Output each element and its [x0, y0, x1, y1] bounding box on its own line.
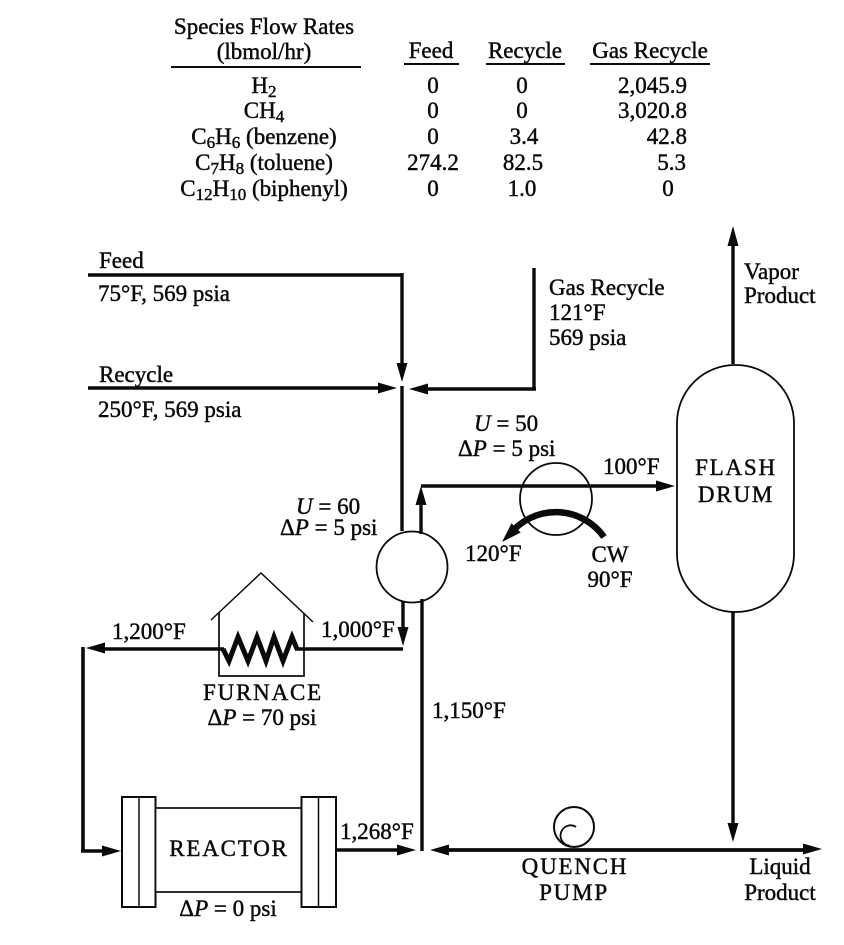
- furnace coil zigzag: [223, 637, 297, 661]
- svg-text:0: 0: [427, 176, 439, 201]
- svg-text:120°F: 120°F: [465, 541, 522, 566]
- arrow cooling water outlet: [502, 523, 521, 542]
- quench pump circle: [554, 807, 594, 847]
- table row CH4: [244, 98, 687, 126]
- svg-text:Liquid: Liquid: [749, 854, 811, 879]
- svg-text:1.0: 1.0: [508, 176, 537, 201]
- reactor left flange: [122, 797, 156, 907]
- furnace body: [219, 613, 304, 676]
- svg-text:Species Flow Rates: Species Flow Rates: [174, 14, 354, 39]
- table header Recycle underline: [486, 63, 565, 65]
- svg-text:Recycle: Recycle: [488, 38, 562, 63]
- table row toluene: [195, 150, 686, 178]
- svg-text:Vapor: Vapor: [744, 259, 799, 284]
- wire cold stream out of U60: [401, 601, 404, 628]
- wire reactor outlet: [336, 848, 397, 852]
- wire gas recycle horizontal: [428, 387, 536, 391]
- svg-text:Product: Product: [744, 283, 816, 308]
- table row benzene: [191, 124, 687, 152]
- quench pump volute: [561, 825, 577, 845]
- arrow liquid down to quench line: [728, 823, 739, 842]
- svg-text:0: 0: [662, 176, 674, 201]
- svg-text:42.8: 42.8: [647, 124, 687, 149]
- node mixer junction: [400, 386, 403, 531]
- arrow cold stream to furnace line: [398, 627, 409, 646]
- arrow liquid product: [803, 844, 822, 855]
- wire vapor product: [731, 245, 734, 364]
- svg-text:ΔP = 5 psi: ΔP = 5 psi: [458, 436, 555, 461]
- wire flash drum bottom: [731, 612, 734, 823]
- svg-text:(lbmol/hr): (lbmol/hr): [217, 39, 312, 64]
- svg-text:U = 50: U = 50: [474, 411, 538, 436]
- svg-text:75°F, 569 psia: 75°F, 569 psia: [98, 281, 230, 306]
- svg-text:DRUM: DRUM: [698, 482, 774, 507]
- wire furnace feed line right segment: [295, 647, 403, 651]
- svg-text:QUENCH: QUENCH: [522, 854, 629, 879]
- arrow gas recycle into mixer: [409, 384, 428, 395]
- arrow hot stream up to cooler line: [416, 486, 427, 505]
- svg-text:ΔP = 0 psi: ΔP = 0 psi: [179, 896, 276, 921]
- svg-text:Gas Recycle: Gas Recycle: [592, 38, 708, 63]
- svg-text:1,150°F: 1,150°F: [432, 698, 506, 723]
- arrow furnace outlet: [86, 643, 105, 654]
- wire hot stream above U60: [419, 505, 422, 534]
- svg-text:ΔP = 70 psi: ΔP = 70 psi: [208, 705, 317, 730]
- wire furnace outlet left segment: [104, 647, 224, 651]
- table row H2: [251, 73, 687, 101]
- wire recycle horizontal: [88, 386, 378, 390]
- svg-text:CW: CW: [591, 542, 628, 567]
- wire furnace to reactor left vertical: [81, 647, 85, 851]
- heat exchanger U50 circle: [520, 463, 592, 535]
- wire feed vertical drop: [400, 273, 403, 364]
- wire cooler line horizontal: [421, 484, 656, 487]
- svg-text:121°F: 121°F: [549, 300, 606, 325]
- arrow recycle into mixer: [378, 383, 397, 394]
- wire quench line horizontal: [449, 848, 804, 852]
- wire feed horizontal: [88, 273, 402, 277]
- svg-text:100°F: 100°F: [603, 454, 660, 479]
- svg-text:1,200°F: 1,200°F: [112, 619, 186, 644]
- wire hot stream vertical 1150F: [420, 599, 423, 851]
- svg-text:0: 0: [516, 98, 528, 123]
- heat exchanger U60 circle: [377, 532, 448, 603]
- svg-text:FLASH: FLASH: [695, 455, 777, 480]
- table row biphenyl: [180, 176, 674, 204]
- svg-text:250°F, 569 psia: 250°F, 569 psia: [98, 397, 241, 422]
- svg-text:274.2: 274.2: [407, 150, 459, 175]
- svg-text:Feed: Feed: [99, 248, 144, 273]
- arrow reactor outlet to quench junction: [397, 845, 416, 856]
- cooling water arc: [510, 512, 604, 537]
- arrow into reactor: [102, 846, 121, 857]
- svg-text:FURNACE: FURNACE: [203, 680, 323, 705]
- svg-text:PUMP: PUMP: [539, 880, 609, 905]
- wire into reactor: [81, 849, 103, 853]
- svg-text:3.4: 3.4: [510, 124, 539, 149]
- arrow into flash drum: [656, 481, 675, 492]
- arrow quench to junction: [430, 845, 449, 856]
- table header Feed underline: [404, 63, 459, 65]
- wire gas recycle vertical: [532, 268, 535, 389]
- reactor right flange: [302, 797, 337, 907]
- svg-text:1,000°F: 1,000°F: [321, 617, 395, 642]
- reactor body: [156, 808, 302, 892]
- furnace roof: [211, 573, 313, 622]
- arrow feed into mixer: [397, 363, 408, 382]
- table header Gas Recycle underline: [590, 63, 710, 65]
- svg-text:2,045.9: 2,045.9: [618, 73, 687, 98]
- svg-text:Recycle: Recycle: [99, 362, 173, 387]
- flash drum vessel: [677, 365, 794, 612]
- arrow vapor product: [728, 226, 739, 246]
- svg-text:0: 0: [427, 124, 439, 149]
- svg-text:0: 0: [516, 73, 528, 98]
- svg-text:ΔP = 5 psi: ΔP = 5 psi: [280, 515, 377, 540]
- svg-text:Feed: Feed: [409, 38, 454, 63]
- svg-text:0: 0: [427, 98, 439, 123]
- table title: [174, 14, 354, 64]
- svg-text:3,020.8: 3,020.8: [618, 98, 687, 123]
- table title underline: [171, 66, 361, 68]
- svg-text:1,268°F: 1,268°F: [340, 819, 414, 844]
- svg-text:569 psia: 569 psia: [549, 325, 626, 350]
- svg-text:REACTOR: REACTOR: [169, 836, 289, 861]
- svg-text:90°F: 90°F: [588, 567, 633, 592]
- svg-text:0: 0: [427, 73, 439, 98]
- svg-text:Product: Product: [744, 880, 816, 905]
- svg-text:82.5: 82.5: [503, 150, 543, 175]
- svg-text:5.3: 5.3: [657, 150, 686, 175]
- svg-text:Gas Recycle: Gas Recycle: [549, 275, 665, 300]
